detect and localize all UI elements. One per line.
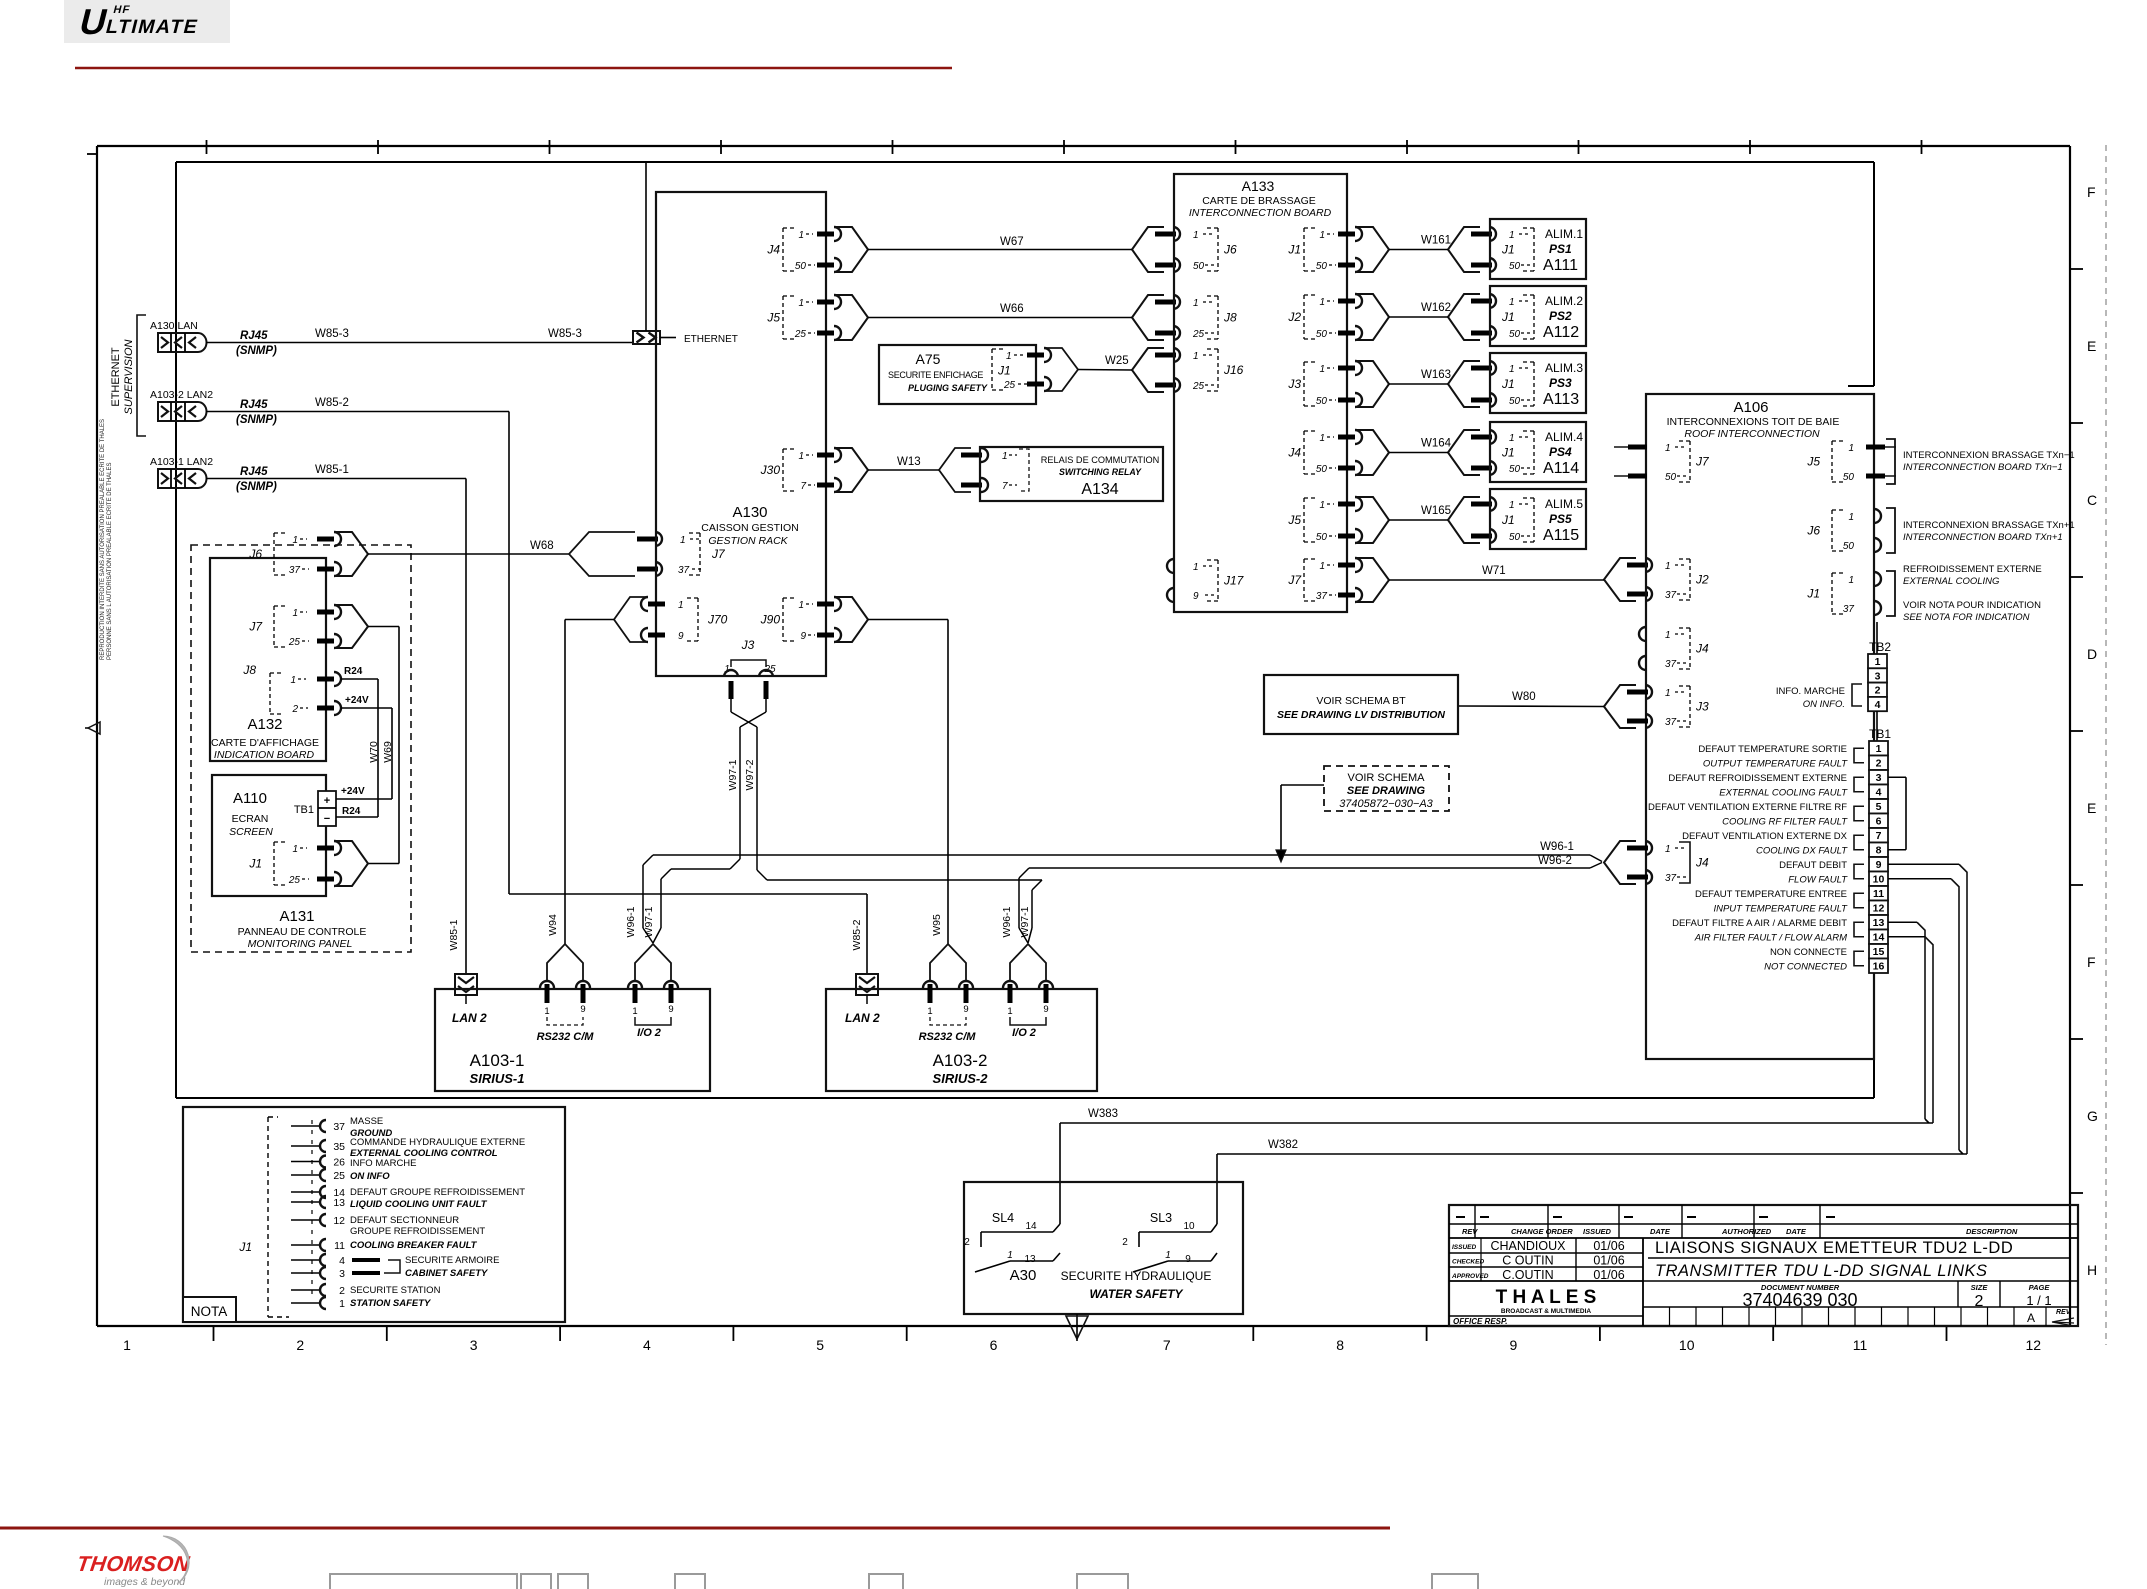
svg-text:W85-3: W85-3 [315,328,349,340]
svg-text:37: 37 [1665,659,1677,670]
svg-text:J1: J1 [1287,243,1301,257]
svg-text:J1: J1 [248,857,262,871]
svg-text:50: 50 [1509,329,1521,340]
svg-text:1: 1 [798,451,804,462]
svg-text:4: 4 [339,1255,345,1267]
svg-text:25: 25 [1192,329,1205,340]
svg-text:LAN 2: LAN 2 [845,1011,880,1025]
svg-text:(SNMP): (SNMP) [236,345,277,357]
svg-text:PS1: PS1 [1549,242,1572,256]
svg-text:LTIMATE: LTIMATE [104,16,201,38]
svg-text:J1: J1 [238,1240,252,1254]
svg-text:9: 9 [1043,1004,1048,1015]
svg-text:9: 9 [1185,1254,1191,1265]
svg-text:W67: W67 [1000,236,1024,248]
svg-text:DEFAUT DEBIT: DEFAUT DEBIT [1779,860,1847,871]
svg-text:HF: HF [112,4,132,16]
svg-text:ON INFO.: ON INFO. [1803,699,1845,710]
svg-text:W97-1: W97-1 [643,906,655,937]
svg-text:1: 1 [290,675,296,686]
svg-text:ON INFO: ON INFO [350,1171,390,1182]
svg-text:(SNMP): (SNMP) [236,414,277,426]
svg-text:C.OUTIN: C.OUTIN [1502,1268,1553,1282]
svg-text:1: 1 [123,1337,131,1353]
svg-text:9: 9 [668,1004,673,1015]
svg-text:1: 1 [1319,561,1325,572]
svg-text:2: 2 [1122,1237,1128,1248]
svg-text:WATER SAFETY: WATER SAFETY [1089,1287,1183,1301]
svg-text:−: − [324,813,330,825]
svg-text:ETHERNET: ETHERNET [110,347,122,407]
svg-text:INTERCONNEXION BRASSAGE TXn−: INTERCONNEXION BRASSAGE TXn−1 [1903,450,2075,461]
svg-text:9: 9 [1876,859,1882,871]
svg-text:37405872−030−A3: 37405872−030−A3 [1339,798,1433,810]
svg-text:INTERCONNEXION BRASSAGE TXn+: INTERCONNEXION BRASSAGE TXn+1 [1903,520,2075,531]
svg-text:A103-1 LAN2: A103-1 LAN2 [150,456,213,468]
svg-text:F: F [2087,954,2096,970]
svg-text:1: 1 [1319,433,1325,444]
svg-text:SL4: SL4 [992,1211,1014,1225]
svg-text:37: 37 [1843,604,1855,615]
svg-text:H: H [2087,1262,2097,1278]
svg-text:W71: W71 [1482,565,1506,577]
svg-text:1: 1 [544,1006,549,1017]
svg-text:01/06: 01/06 [1593,1268,1624,1282]
svg-text:CARTE DE BRASSAGE: CARTE DE BRASSAGE [1202,195,1316,207]
svg-text:37: 37 [1665,717,1677,728]
svg-text:50: 50 [1665,472,1677,483]
svg-text:W85-1: W85-1 [315,464,349,476]
svg-text:DATE: DATE [1650,1227,1671,1236]
svg-text:W95: W95 [931,914,943,936]
svg-text:1: 1 [339,1298,345,1310]
svg-text:PAGE: PAGE [2029,1283,2051,1292]
svg-text:images & beyond: images & beyond [104,1576,186,1588]
svg-text:BROADCAST & MULTIMEDIA: BROADCAST & MULTIMEDIA [1501,1308,1591,1315]
svg-text:CHANDIOUX: CHANDIOUX [1490,1239,1566,1253]
svg-text:1: 1 [1193,298,1199,309]
svg-text:NOT CONNECTED: NOT CONNECTED [1764,962,1847,973]
svg-text:01/06: 01/06 [1593,1239,1624,1253]
svg-text:J4: J4 [766,243,780,257]
svg-text:J8: J8 [242,663,256,677]
svg-text:TB2: TB2 [1869,640,1891,654]
svg-text:R24: R24 [342,806,361,817]
svg-text:CAISSON GESTION: CAISSON GESTION [701,522,798,534]
svg-text:F: F [2087,184,2096,200]
svg-text:MASSE: MASSE [350,1116,383,1127]
svg-text:W96-1: W96-1 [1540,841,1574,853]
svg-text:25: 25 [794,329,807,340]
svg-text:VOIR SCHEMA BT: VOIR SCHEMA BT [1316,695,1406,707]
svg-text:1: 1 [1509,364,1515,375]
svg-text:E: E [2087,800,2096,816]
svg-text:J7: J7 [711,547,726,561]
svg-text:3: 3 [1876,772,1882,784]
svg-text:AUTHORIZED: AUTHORIZED [1721,1227,1772,1236]
svg-text:13: 13 [333,1197,345,1209]
svg-text:SUPERVISION: SUPERVISION [123,339,135,414]
svg-text:TRANSMITTER TDU L-DD SIGNAL LI: TRANSMITTER TDU L-DD SIGNAL LINKS [1655,1262,1988,1280]
svg-text:50: 50 [1509,532,1521,543]
svg-text:MONITORING PANEL: MONITORING PANEL [248,938,353,950]
svg-text:12: 12 [2026,1337,2042,1353]
svg-text:INTERCONNEXIONS TOIT DE BAI: INTERCONNEXIONS TOIT DE BAIE [1667,416,1840,428]
svg-text:50: 50 [1843,541,1855,552]
svg-text:INTERCONNECTION BOARD: INTERCONNECTION BOARD [1189,207,1332,219]
svg-text:SL3: SL3 [1150,1211,1172,1225]
svg-text:12: 12 [1873,903,1885,915]
svg-text:1: 1 [1876,743,1882,755]
svg-text:1: 1 [1665,443,1671,454]
svg-text:1: 1 [1165,1250,1171,1261]
svg-text:PANNEAU DE CONTROLE: PANNEAU DE CONTROLE [238,926,367,938]
svg-text:COOLING BREAKER FAULT: COOLING BREAKER FAULT [350,1240,478,1251]
svg-text:1: 1 [1665,844,1671,855]
svg-text:W70: W70 [368,741,380,763]
svg-text:SECURITE ARMOIRE: SECURITE ARMOIRE [405,1255,500,1266]
svg-text:RS232 C/M: RS232 C/M [919,1031,977,1043]
svg-text:DESCRIPTION: DESCRIPTION [1966,1227,2018,1236]
svg-text:+24V: +24V [345,695,369,706]
svg-text:1: 1 [1319,230,1325,241]
svg-text:J1: J1 [1501,377,1515,391]
svg-text:8: 8 [1336,1337,1344,1353]
svg-text:1: 1 [292,844,298,855]
svg-text:APPROVED: APPROVED [1451,1273,1489,1280]
svg-text:J3: J3 [741,638,755,652]
svg-text:W85-2: W85-2 [315,397,349,409]
svg-text:J7: J7 [1287,573,1302,587]
svg-text:DEFAUT GROUPE REFROIDISSEMEN: DEFAUT GROUPE REFROIDISSEMENT [350,1187,525,1198]
svg-text:25: 25 [1003,380,1016,391]
svg-text:+: + [324,795,330,807]
svg-text:1: 1 [1509,500,1515,511]
svg-text:W80: W80 [1512,691,1536,703]
svg-text:1: 1 [1319,500,1325,511]
svg-text:E: E [2087,338,2096,354]
svg-text:DEFAUT FILTRE A AIR / ALA: DEFAUT FILTRE A AIR / ALARME DEBIT [1672,918,1847,929]
svg-text:1: 1 [292,535,298,546]
svg-text:A132: A132 [247,716,282,733]
svg-text:A114: A114 [1543,460,1579,477]
svg-text:1: 1 [1007,1006,1012,1017]
svg-text:4: 4 [643,1337,651,1353]
svg-text:1 / 1: 1 / 1 [2026,1293,2051,1308]
svg-text:J6: J6 [1806,524,1820,538]
svg-text:1: 1 [1193,351,1199,362]
svg-text:1: 1 [1665,561,1671,572]
svg-text:J4: J4 [1695,856,1709,870]
svg-text:W97-1: W97-1 [727,759,739,790]
svg-text:1: 1 [1007,1250,1013,1261]
svg-text:A103-1: A103-1 [470,1051,525,1070]
svg-text:1: 1 [798,298,804,309]
svg-text:GROUPE REFROIDISSEMENT: GROUPE REFROIDISSEMENT [350,1226,485,1237]
svg-text:W96-2: W96-2 [1538,855,1572,867]
svg-text:OUTPUT TEMPERATURE FAULT: OUTPUT TEMPERATURE FAULT [1703,759,1848,770]
svg-text:5: 5 [816,1337,824,1353]
svg-text:DEFAUT REFROIDISSEMENT EXTER: DEFAUT REFROIDISSEMENT EXTERNE [1668,773,1847,784]
svg-text:RJ45: RJ45 [240,466,268,478]
svg-text:A134: A134 [1081,481,1118,498]
svg-text:A131: A131 [279,908,314,925]
svg-text:2: 2 [291,704,298,715]
svg-text:RELAIS DE COMMUTATION: RELAIS DE COMMUTATION [1041,455,1160,465]
svg-text:W85-3: W85-3 [548,328,582,340]
svg-text:ALIM.2: ALIM.2 [1545,294,1583,308]
svg-text:A113: A113 [1543,391,1579,408]
svg-text:W383: W383 [1088,1108,1118,1120]
svg-text:CHECKED: CHECKED [1452,1259,1484,1266]
svg-text:ROOF INTERCONNECTION: ROOF INTERCONNECTION [1684,428,1820,440]
svg-text:W68: W68 [530,540,554,552]
svg-text:W164: W164 [1421,438,1452,450]
svg-text:1: 1 [632,1006,637,1017]
svg-text:SEE NOTA FOR INDICATION: SEE NOTA FOR INDICATION [1903,612,2030,623]
svg-text:SECURITE STATION: SECURITE STATION [350,1285,441,1296]
svg-text:01/06: 01/06 [1593,1254,1624,1268]
svg-text:A130 LAN: A130 LAN [150,320,198,332]
svg-text:J1: J1 [1501,446,1515,460]
svg-text:J1: J1 [1806,587,1820,601]
svg-text:11: 11 [334,1240,345,1252]
svg-text:9: 9 [678,631,684,642]
svg-text:J7: J7 [1695,455,1710,469]
svg-text:1: 1 [798,230,804,241]
svg-text:I/O 2: I/O 2 [637,1027,661,1039]
svg-text:A112: A112 [1543,324,1579,341]
svg-text:DEFAUT TEMPERATURE ENTREE: DEFAUT TEMPERATURE ENTREE [1695,889,1847,900]
svg-text:OFFICE RESP.: OFFICE RESP. [1453,1317,1508,1326]
svg-text:37: 37 [678,565,690,576]
svg-text:RJ45: RJ45 [240,330,268,342]
svg-text:7: 7 [1002,481,1008,492]
svg-text:50: 50 [1843,472,1855,483]
svg-text:THOMSON: THOMSON [75,1551,191,1576]
svg-text:50: 50 [795,261,807,272]
svg-text:A110: A110 [233,790,267,807]
svg-text:W85-2: W85-2 [851,919,863,950]
svg-text:10: 10 [1183,1221,1195,1232]
svg-text:A111: A111 [1543,257,1578,274]
svg-text:1: 1 [1848,575,1854,586]
svg-text:W382: W382 [1268,1139,1298,1151]
svg-text:1: 1 [1193,562,1199,573]
svg-text:37: 37 [333,1121,345,1133]
svg-text:ISSUED: ISSUED [1452,1244,1477,1251]
svg-text:R24: R24 [344,666,363,677]
svg-text:50: 50 [1509,464,1521,475]
svg-text:25: 25 [288,875,301,886]
svg-text:SEE DRAWING LV DISTRIBUTION: SEE DRAWING LV DISTRIBUTION [1277,709,1445,721]
svg-text:INFO MARCHE: INFO MARCHE [350,1158,417,1169]
svg-text:PS2: PS2 [1549,309,1572,323]
svg-text:W96-1: W96-1 [1001,906,1013,937]
svg-text:REFROIDISSEMENT EXTERNE: REFROIDISSEMENT EXTERNE [1903,564,2042,575]
svg-text:7: 7 [800,481,806,492]
svg-text:25: 25 [333,1170,345,1182]
svg-text:4: 4 [1876,787,1882,799]
svg-text:REV: REV [1462,1227,1478,1236]
svg-text:SIRIUS-1: SIRIUS-1 [470,1071,525,1086]
svg-text:2: 2 [1875,685,1881,697]
svg-text:1: 1 [1848,512,1854,523]
svg-text:SEE DRAWING: SEE DRAWING [1347,785,1426,797]
svg-text:TB1: TB1 [294,804,314,816]
svg-text:ECRAN: ECRAN [232,813,269,825]
svg-text:14: 14 [1025,1221,1037,1232]
svg-text:W162: W162 [1421,302,1451,314]
svg-text:W97-1: W97-1 [1019,906,1031,937]
svg-text:1: 1 [1319,364,1325,375]
svg-text:1: 1 [1319,297,1325,308]
svg-text:PS3: PS3 [1549,376,1572,390]
svg-text:REPRODUCTION INTERDITE SANS AU: REPRODUCTION INTERDITE SANS AUTORISATION… [100,419,106,660]
svg-text:W161: W161 [1421,235,1451,247]
svg-text:9: 9 [1193,591,1199,602]
svg-text:NOTA: NOTA [191,1304,228,1319]
svg-text:W66: W66 [1000,303,1024,315]
svg-text:DEFAUT TEMPERATURE SORTIE: DEFAUT TEMPERATURE SORTIE [1698,744,1847,755]
svg-text:1: 1 [678,600,684,611]
svg-text:7: 7 [1163,1337,1171,1353]
svg-text:J90: J90 [760,613,781,627]
svg-text:50: 50 [1509,396,1521,407]
svg-text:DEFAUT VENTILATION EXTERNE: DEFAUT VENTILATION EXTERNE DX [1682,831,1848,842]
svg-text:11: 11 [1873,888,1884,900]
svg-text:A115: A115 [1543,527,1579,544]
svg-text:A106: A106 [1733,399,1768,416]
svg-text:PLUGING SAFETY: PLUGING SAFETY [908,383,988,393]
svg-text:J8: J8 [1223,311,1237,325]
svg-text:5: 5 [1876,801,1882,813]
svg-text:INFO. MARCHE: INFO. MARCHE [1776,686,1845,697]
svg-text:1: 1 [798,600,804,611]
svg-text:J1: J1 [1501,513,1515,527]
svg-text:A130: A130 [732,504,767,521]
svg-text:1: 1 [1509,230,1515,241]
svg-text:50: 50 [1193,261,1205,272]
svg-text:COMMANDE HYDRAULIQUE EXTERNE: COMMANDE HYDRAULIQUE EXTERNE [350,1137,525,1148]
svg-text:DEFAUT VENTILATION EXTERNE: DEFAUT VENTILATION EXTERNE FILTRE RF [1648,802,1847,813]
svg-text:J6: J6 [1223,243,1237,257]
svg-text:J6: J6 [248,547,262,561]
svg-text:10: 10 [1679,1337,1695,1353]
svg-text:EXTERNAL COOLING FAULT: EXTERNAL COOLING FAULT [1719,788,1848,799]
svg-text:37: 37 [1665,590,1677,601]
svg-text:J1: J1 [997,364,1011,378]
svg-text:PERSONNE SANS L AUTORISATION P: PERSONNE SANS L AUTORISATION PREALABLE E… [107,462,113,660]
svg-text:ALIM.1: ALIM.1 [1545,227,1583,241]
svg-text:50: 50 [1316,532,1328,543]
svg-text:J5: J5 [1287,513,1301,527]
svg-text:9: 9 [1510,1337,1518,1353]
svg-text:INTERCONNECTION BOARD TXn+1: INTERCONNECTION BOARD TXn+1 [1903,532,2063,543]
svg-text:COOLING DX FAULT: COOLING DX FAULT [1756,846,1848,857]
svg-text:8: 8 [1876,845,1882,857]
svg-text:LIAISONS SIGNAUX EMETTEUR TDU2: LIAISONS SIGNAUX EMETTEUR TDU2 L-DD [1655,1239,2013,1257]
svg-text:37: 37 [1316,591,1328,602]
svg-text:A75: A75 [916,351,941,367]
svg-text:2: 2 [1876,758,1882,770]
svg-text:A133: A133 [1242,178,1275,194]
svg-text:J7: J7 [248,620,263,634]
svg-text:50: 50 [1316,329,1328,340]
svg-text:1: 1 [1665,688,1671,699]
svg-text:RJ45: RJ45 [240,399,268,411]
svg-text:J2: J2 [1695,573,1709,587]
svg-text:1: 1 [1848,443,1854,454]
svg-text:50: 50 [1316,261,1328,272]
svg-text:G: G [2087,1108,2098,1124]
svg-text:16: 16 [1873,961,1885,973]
svg-text:9: 9 [580,1004,585,1015]
svg-text:1: 1 [1193,230,1199,241]
svg-text:J3: J3 [1287,377,1301,391]
svg-text:11: 11 [1853,1337,1868,1353]
svg-text:12: 12 [333,1215,345,1227]
svg-text:PS5: PS5 [1549,512,1572,526]
svg-text:A30: A30 [1010,1267,1037,1284]
svg-text:J5: J5 [1806,455,1820,469]
svg-text:SECURITE ENFICHAGE: SECURITE ENFICHAGE [888,370,983,380]
svg-text:J70: J70 [707,613,728,627]
svg-text:25: 25 [1192,381,1205,392]
svg-text:REV: REV [2056,1309,2072,1316]
svg-text:1: 1 [1509,433,1515,444]
svg-text:EXTERNAL COOLING: EXTERNAL COOLING [1903,576,1999,587]
svg-text:J17: J17 [1223,574,1245,588]
svg-text:AIR FILTER FAULT / FLOW A: AIR FILTER FAULT / FLOW ALARM [1694,933,1847,944]
svg-text:T H A L E S: T H A L E S [1496,1287,1597,1308]
svg-text:A103-2: A103-2 [933,1051,988,1070]
svg-text:ETHERNET: ETHERNET [684,334,738,345]
svg-text:1: 1 [1509,297,1515,308]
svg-text:15: 15 [1873,946,1885,958]
svg-text:GESTION RACK: GESTION RACK [708,535,788,547]
svg-text:W94: W94 [547,914,559,936]
svg-text:1: 1 [1006,351,1012,362]
svg-text:J1: J1 [1501,243,1515,257]
svg-text:PS4: PS4 [1549,445,1572,459]
svg-text:3: 3 [470,1337,478,1353]
svg-text:50: 50 [1316,464,1328,475]
svg-text:D: D [2087,646,2097,662]
svg-text:I/O 2: I/O 2 [1012,1027,1036,1039]
svg-text:13: 13 [1873,917,1885,929]
svg-text:13: 13 [1024,1254,1036,1265]
svg-text:10: 10 [1873,874,1885,886]
svg-text:C: C [2087,492,2097,508]
svg-text:1: 1 [1875,656,1881,668]
svg-text:W165: W165 [1421,505,1451,517]
svg-text:FLOW FAULT: FLOW FAULT [1788,875,1848,886]
svg-text:VOIR NOTA POUR INDICATION: VOIR NOTA POUR INDICATION [1903,600,2041,611]
svg-text:INPUT TEMPERATURE FAULT: INPUT TEMPERATURE FAULT [1713,904,1848,915]
svg-text:4: 4 [1875,699,1881,711]
svg-text:9: 9 [800,631,806,642]
svg-text:TB1: TB1 [1869,727,1891,741]
svg-text:ALIM.4: ALIM.4 [1545,430,1583,444]
svg-text:ALIM.5: ALIM.5 [1545,497,1583,511]
svg-text:37: 37 [1665,873,1677,884]
svg-text:SWITCHING RELAY: SWITCHING RELAY [1059,467,1142,477]
svg-text:DEFAUT SECTIONNEUR: DEFAUT SECTIONNEUR [350,1215,459,1226]
svg-text:J30: J30 [760,463,781,477]
svg-text:SIZE: SIZE [1971,1283,1989,1292]
svg-text:2: 2 [339,1285,345,1297]
